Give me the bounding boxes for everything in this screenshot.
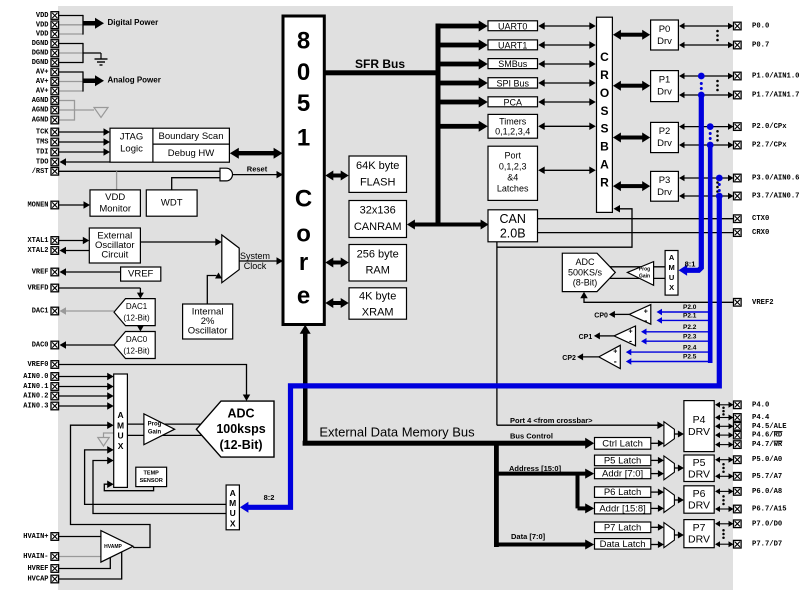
- svg-text:P0.7: P0.7: [752, 42, 769, 50]
- svg-text:Bus Control: Bus Control: [510, 432, 553, 441]
- svg-text:ADC: ADC: [575, 257, 595, 267]
- svg-text:DRV: DRV: [688, 469, 710, 481]
- svg-text:P2.0/CPx: P2.0/CPx: [752, 123, 787, 131]
- svg-text:256 byte: 256 byte: [357, 249, 399, 261]
- svg-text:DRV: DRV: [688, 500, 710, 512]
- svg-text:Timers: Timers: [499, 117, 527, 127]
- svg-text:DAC1: DAC1: [126, 302, 148, 311]
- svg-text:P4.6/RD: P4.6/RD: [752, 432, 783, 440]
- svg-text:CP2: CP2: [562, 355, 576, 362]
- svg-text:C: C: [295, 186, 312, 213]
- svg-text:VREF: VREF: [32, 269, 49, 277]
- svg-text:R: R: [600, 176, 609, 190]
- svg-text:M: M: [229, 498, 236, 508]
- svg-text:JTAG: JTAG: [120, 132, 144, 143]
- svg-text:SPI Bus: SPI Bus: [496, 78, 529, 88]
- svg-text:500KS/s: 500KS/s: [568, 267, 603, 277]
- svg-text:VREF0: VREF0: [27, 361, 48, 369]
- svg-text:CP0: CP0: [594, 312, 608, 319]
- svg-text:1: 1: [297, 125, 310, 152]
- svg-text:(12-Bit): (12-Bit): [123, 347, 150, 356]
- svg-text:X: X: [669, 283, 674, 292]
- svg-text:P2.0: P2.0: [683, 304, 697, 311]
- svg-text:HVAIN-: HVAIN-: [23, 553, 48, 561]
- svg-text:CTX0: CTX0: [752, 215, 769, 223]
- svg-text:5: 5: [297, 90, 310, 117]
- svg-text:Monitor: Monitor: [99, 204, 131, 215]
- svg-text:Data [7:0]: Data [7:0]: [511, 532, 546, 541]
- svg-text:Logic: Logic: [120, 144, 143, 155]
- svg-text:VDD: VDD: [105, 192, 125, 203]
- svg-text:A: A: [669, 253, 675, 262]
- svg-text:SMBus: SMBus: [498, 59, 528, 69]
- svg-text:AIN0.1: AIN0.1: [23, 383, 48, 391]
- svg-text:P0.0: P0.0: [752, 23, 769, 31]
- svg-text:Analog Power: Analog Power: [108, 76, 161, 85]
- svg-text:CP1: CP1: [579, 334, 593, 341]
- svg-text:U: U: [230, 508, 236, 518]
- svg-text:8:2: 8:2: [264, 493, 275, 502]
- svg-text:Latches: Latches: [497, 184, 529, 194]
- svg-text:2.0B: 2.0B: [500, 227, 526, 241]
- svg-text:P4: P4: [693, 414, 706, 426]
- svg-text:AIN0.2: AIN0.2: [23, 393, 48, 401]
- svg-text:Data Latch: Data Latch: [600, 539, 646, 550]
- svg-text:UART0: UART0: [498, 21, 527, 31]
- svg-text:Debug HW: Debug HW: [168, 148, 214, 159]
- svg-text:MONEN: MONEN: [27, 202, 48, 210]
- svg-text:AGND: AGND: [32, 97, 49, 105]
- svg-text:HVAIN+: HVAIN+: [23, 533, 48, 541]
- svg-text:FLASH: FLASH: [360, 177, 396, 189]
- svg-text:-: -: [644, 315, 647, 325]
- svg-text:Drv: Drv: [657, 187, 672, 198]
- svg-text:P7.0/D0: P7.0/D0: [752, 520, 782, 528]
- svg-text:P4.7/WR: P4.7/WR: [752, 441, 783, 449]
- svg-text:VREF: VREF: [128, 269, 154, 280]
- svg-text:r: r: [299, 249, 308, 276]
- svg-text:Clock: Clock: [244, 261, 267, 271]
- svg-text:Port: Port: [504, 151, 521, 161]
- svg-text:ADC: ADC: [227, 407, 254, 421]
- svg-text:PCA: PCA: [503, 97, 522, 107]
- svg-text:P4.5/ALE: P4.5/ALE: [752, 423, 787, 431]
- svg-text:DAC0: DAC0: [126, 335, 148, 344]
- svg-text:P5 Latch: P5 Latch: [604, 455, 642, 466]
- svg-text:A: A: [600, 158, 609, 172]
- svg-text:P3: P3: [659, 175, 671, 186]
- svg-text:8: 8: [297, 28, 310, 55]
- svg-text:P2: P2: [659, 126, 671, 137]
- svg-text:UART1: UART1: [498, 40, 527, 50]
- svg-text:TDI: TDI: [36, 149, 49, 157]
- svg-text:(8-Bit): (8-Bit): [573, 278, 598, 288]
- svg-text:CANRAM: CANRAM: [354, 221, 402, 233]
- svg-text:0,1,2,3: 0,1,2,3: [499, 162, 527, 172]
- svg-text:DRV: DRV: [688, 534, 710, 546]
- svg-text:Address [15:0]: Address [15:0]: [509, 464, 562, 473]
- svg-text:U: U: [669, 273, 674, 282]
- svg-text:P7 Latch: P7 Latch: [604, 522, 642, 533]
- svg-text:Boundary Scan: Boundary Scan: [159, 131, 224, 142]
- svg-text:P3.0/AIN0.6: P3.0/AIN0.6: [752, 175, 799, 183]
- svg-text:RAM: RAM: [365, 265, 389, 277]
- svg-text:XRAM: XRAM: [362, 307, 394, 319]
- svg-text:+: +: [628, 328, 632, 335]
- svg-text:Addr [7:0]: Addr [7:0]: [602, 468, 643, 479]
- svg-text:A: A: [230, 488, 236, 498]
- svg-text:+: +: [613, 349, 617, 356]
- svg-text:AGND: AGND: [32, 117, 49, 125]
- svg-text:8:1: 8:1: [685, 260, 696, 269]
- svg-text:DGND: DGND: [32, 59, 49, 67]
- svg-text:XTAL1: XTAL1: [27, 237, 48, 245]
- svg-text:A: A: [118, 410, 124, 420]
- svg-text:AV+: AV+: [36, 78, 49, 86]
- svg-text:Addr [15:8]: Addr [15:8]: [599, 503, 645, 514]
- svg-text:CAN: CAN: [499, 212, 525, 226]
- svg-text:P2.3: P2.3: [683, 333, 697, 340]
- svg-text:64K byte: 64K byte: [356, 160, 399, 172]
- svg-text:TMS: TMS: [36, 139, 49, 147]
- svg-text:/RST: /RST: [32, 168, 49, 176]
- svg-text:4K byte: 4K byte: [359, 291, 396, 303]
- svg-text:SFR Bus: SFR Bus: [355, 57, 405, 71]
- svg-text:VREFD: VREFD: [27, 285, 48, 293]
- svg-text:100ksps: 100ksps: [216, 422, 265, 436]
- svg-text:AV+: AV+: [36, 88, 49, 96]
- svg-text:P3.7/AIN0.7: P3.7/AIN0.7: [752, 193, 799, 201]
- svg-text:U: U: [118, 431, 124, 441]
- svg-text:Port 4 <from crossbar>: Port 4 <from crossbar>: [510, 416, 593, 425]
- svg-text:DRV: DRV: [688, 426, 710, 438]
- svg-text:P1.7/AIN1.7: P1.7/AIN1.7: [752, 92, 799, 100]
- svg-text:e: e: [297, 283, 310, 310]
- svg-text:P2.5: P2.5: [683, 354, 697, 361]
- svg-text:C: C: [600, 50, 609, 64]
- svg-text:VDD: VDD: [36, 31, 49, 39]
- svg-text:Reset: Reset: [247, 165, 268, 174]
- svg-text:Gain: Gain: [639, 274, 650, 280]
- svg-text:Gain: Gain: [148, 430, 162, 436]
- svg-text:P1: P1: [659, 75, 671, 86]
- svg-text:Drv: Drv: [657, 138, 672, 149]
- svg-text:DAC0: DAC0: [32, 342, 49, 350]
- svg-text:HVREF: HVREF: [27, 565, 48, 573]
- svg-text:XTAL2: XTAL2: [27, 247, 48, 255]
- svg-text:P7.7/D7: P7.7/D7: [752, 541, 782, 549]
- svg-text:HVAMP: HVAMP: [104, 544, 122, 550]
- svg-text:TCK: TCK: [36, 129, 49, 137]
- svg-text:(12-Bit): (12-Bit): [123, 314, 150, 323]
- svg-text:HVCAP: HVCAP: [27, 576, 48, 584]
- svg-text:M: M: [668, 263, 674, 272]
- svg-text:P5: P5: [693, 457, 706, 469]
- svg-text:Drv: Drv: [657, 87, 672, 98]
- svg-text:AGND: AGND: [32, 107, 49, 115]
- svg-text:VDD: VDD: [36, 12, 49, 20]
- svg-text:R: R: [600, 68, 609, 82]
- svg-text:P5.0/A0: P5.0/A0: [752, 456, 782, 464]
- svg-text:VDD: VDD: [36, 21, 49, 29]
- svg-text:Ctrl Latch: Ctrl Latch: [602, 438, 643, 449]
- svg-text:M: M: [117, 420, 124, 430]
- svg-text:DAC1: DAC1: [32, 308, 49, 316]
- svg-text:0,1,2,3,4: 0,1,2,3,4: [495, 127, 530, 137]
- svg-text:P2.4: P2.4: [683, 344, 697, 351]
- svg-text:SENSOR: SENSOR: [140, 478, 163, 484]
- svg-text:System: System: [240, 251, 270, 261]
- svg-text:Circuit: Circuit: [101, 250, 128, 261]
- svg-text:P5.7/A7: P5.7/A7: [752, 473, 782, 481]
- svg-text:-: -: [629, 336, 632, 346]
- svg-text:P1.0/AIN1.0: P1.0/AIN1.0: [752, 73, 799, 81]
- svg-text:Prog: Prog: [148, 422, 162, 428]
- svg-text:P0: P0: [659, 24, 671, 35]
- svg-text:-: -: [614, 357, 617, 367]
- svg-text:P2.1: P2.1: [683, 313, 697, 320]
- svg-text:X: X: [118, 441, 124, 451]
- svg-text:&4: &4: [507, 173, 518, 183]
- svg-text:0: 0: [297, 59, 310, 86]
- svg-text:O: O: [600, 86, 609, 100]
- svg-text:WDT: WDT: [161, 198, 183, 209]
- svg-text:AV+: AV+: [36, 69, 49, 77]
- svg-text:VREF2: VREF2: [752, 299, 774, 307]
- svg-text:DGND: DGND: [32, 50, 49, 58]
- svg-text:P4.0: P4.0: [752, 401, 769, 409]
- svg-text:P6 Latch: P6 Latch: [604, 487, 642, 498]
- svg-text:P6: P6: [693, 488, 706, 500]
- svg-text:B: B: [600, 140, 609, 154]
- svg-text:CRX0: CRX0: [752, 229, 769, 237]
- svg-text:P2.7/CPx: P2.7/CPx: [752, 142, 787, 150]
- svg-text:Prog: Prog: [639, 267, 650, 273]
- svg-text:TEMP: TEMP: [144, 471, 160, 477]
- svg-text:P6.0/A8: P6.0/A8: [752, 488, 782, 496]
- svg-text:S: S: [600, 104, 608, 118]
- svg-text:AIN0.0: AIN0.0: [23, 373, 48, 381]
- svg-text:P6.7/A15: P6.7/A15: [752, 506, 787, 514]
- svg-text:DGND: DGND: [32, 40, 49, 48]
- svg-text:P7: P7: [693, 522, 706, 534]
- svg-text:S: S: [600, 122, 608, 136]
- svg-text:X: X: [230, 518, 236, 528]
- svg-text:o: o: [296, 221, 311, 248]
- svg-text:Drv: Drv: [657, 36, 672, 47]
- svg-text:(12-Bit): (12-Bit): [219, 438, 262, 452]
- svg-text:P4.4: P4.4: [752, 414, 770, 422]
- svg-text:Digital Power: Digital Power: [108, 18, 159, 27]
- svg-text:32x136: 32x136: [360, 205, 396, 217]
- svg-text:TDO: TDO: [36, 159, 49, 167]
- svg-text:AIN0.3: AIN0.3: [23, 403, 48, 411]
- svg-text:P2.2: P2.2: [683, 324, 697, 331]
- svg-text:External Data Memory Bus: External Data Memory Bus: [319, 425, 475, 440]
- svg-text:Oscillator: Oscillator: [188, 326, 228, 337]
